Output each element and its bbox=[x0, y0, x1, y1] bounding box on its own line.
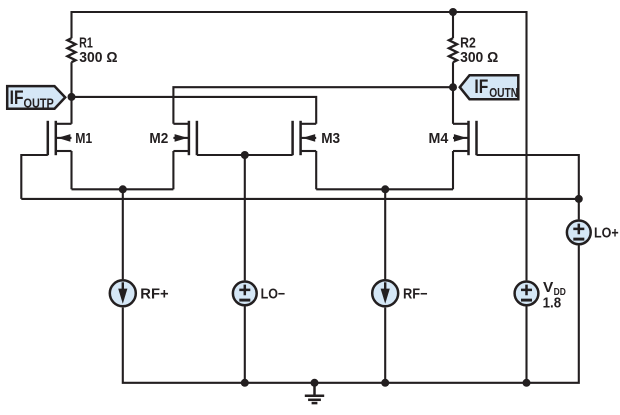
transistor M3 bbox=[293, 121, 317, 155]
wire M1 gate lead going left and down bbox=[21, 155, 48, 199]
svg-text:300 Ω: 300 Ω bbox=[79, 50, 117, 66]
svg-text:M3: M3 bbox=[321, 131, 340, 147]
current source RF- bbox=[372, 280, 398, 306]
node LO+ junction bbox=[575, 195, 583, 203]
wire RF- node down to RF- source bbox=[384, 189, 386, 279]
svg-text:V: V bbox=[543, 280, 553, 296]
transistor M1 bbox=[48, 121, 72, 155]
current source RF+ bbox=[110, 280, 136, 306]
wire LO+ node down to LO+ source bbox=[578, 199, 580, 220]
wire M2 drain up and across to IF_OUTN node bbox=[173, 87, 453, 124]
svg-text:M1: M1 bbox=[75, 131, 92, 147]
node LO- gate junction bbox=[241, 151, 249, 159]
wire LO- node down to LO- source bbox=[244, 155, 246, 280]
node ground rail RF- junction bbox=[381, 379, 389, 387]
wire RF- source bottom to ground rail bbox=[384, 308, 386, 383]
svg-text:OUTP: OUTP bbox=[24, 95, 55, 110]
wire LO+ distribution line across bottom of quad bbox=[21, 198, 579, 200]
ground bbox=[305, 383, 324, 403]
wire M3 source down to tail line bbox=[315, 151, 317, 189]
wire M4 source down to tail line bbox=[452, 151, 454, 189]
svg-text:LO+: LO+ bbox=[594, 226, 619, 242]
wire bottom ground rail with RF+ and LO+ lower leads bbox=[123, 245, 579, 382]
voltage source LO- bbox=[233, 282, 257, 306]
node ground rail ground junction bbox=[311, 379, 319, 387]
wire M4 drain to IF_OUTN node bbox=[452, 87, 454, 124]
svg-text:M2: M2 bbox=[149, 131, 168, 147]
port IF_OUTN bbox=[460, 75, 519, 99]
wire RF+ node down to RF+ source bbox=[122, 189, 124, 279]
svg-text:RF−: RF− bbox=[403, 287, 428, 303]
svg-text:RF+: RF+ bbox=[140, 287, 168, 303]
wire R2 bottom lead to IF_OUTN node bbox=[452, 62, 454, 87]
svg-text:OUTN: OUTN bbox=[489, 85, 518, 100]
wire top supply rail and VDD branch down to VDD source bbox=[72, 12, 527, 280]
transistor M4 bbox=[453, 121, 477, 155]
svg-text:IF: IF bbox=[474, 77, 488, 98]
wire VDD source bottom to ground rail bbox=[525, 306, 527, 382]
wire M2 gate to M3 gate (LO- node) bbox=[197, 154, 293, 156]
node ground rail VDD junction bbox=[523, 379, 531, 387]
svg-text:300 Ω: 300 Ω bbox=[460, 50, 498, 66]
wire tail line M3-M4 sources (RF- node) bbox=[316, 188, 453, 190]
svg-text:IF: IF bbox=[10, 88, 24, 109]
wire R1 bottom lead to IF_OUTP node bbox=[70, 62, 72, 97]
node RF- tail junction bbox=[381, 185, 389, 193]
node IF_OUTP junction bbox=[68, 93, 76, 101]
resistor R2 bbox=[449, 38, 457, 62]
transistor M2 bbox=[173, 121, 197, 155]
wire M1 source down to tail line bbox=[70, 151, 72, 189]
resistor R1 bbox=[67, 38, 75, 62]
voltage source VDD bbox=[515, 282, 539, 306]
wire M1 drain to IF_OUTP node bbox=[70, 97, 72, 124]
svg-text:LO−: LO− bbox=[261, 287, 286, 303]
node top rail / R2 junction bbox=[449, 8, 457, 16]
port IF_OUTP bbox=[7, 86, 65, 109]
wire IF_OUTP node to M3 drain bbox=[72, 97, 317, 124]
wire R2 top lead bbox=[452, 12, 454, 38]
node RF+ tail junction bbox=[119, 185, 127, 193]
svg-text:1.8: 1.8 bbox=[543, 296, 562, 312]
svg-text:M4: M4 bbox=[429, 131, 449, 147]
wire tail line M1-M2 sources (RF+ node) bbox=[72, 188, 174, 190]
voltage source LO+ bbox=[567, 221, 591, 245]
wire M2 source down to tail line bbox=[172, 151, 174, 189]
wire LO- source bottom to ground rail bbox=[244, 306, 246, 382]
node ground rail LO- junction bbox=[241, 379, 249, 387]
wire M4 gate lead going right and down to LO+ node bbox=[477, 155, 579, 199]
node IF_OUTN junction bbox=[449, 83, 457, 91]
